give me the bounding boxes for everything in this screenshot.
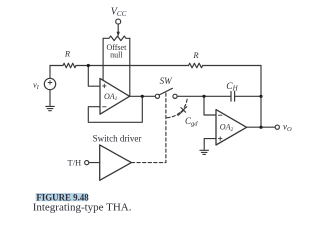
svg-text:Integrating-type THA.: Integrating-type THA. xyxy=(33,202,132,214)
offset null box right side xyxy=(129,38,131,65)
wire T/H to driver xyxy=(89,162,100,164)
capacitor Cgd cross stroke xyxy=(181,108,186,113)
label Switch driver xyxy=(93,133,142,143)
wire switch to CH xyxy=(177,95,231,97)
svg-text:R: R xyxy=(64,49,71,59)
ground under OA2 xyxy=(200,150,209,154)
capacitor Cgd plates xyxy=(178,107,187,116)
OA2 plus input marker xyxy=(218,137,222,141)
caption FIGURE 9.48 xyxy=(36,192,89,202)
wire OA1 output to switch xyxy=(130,95,156,97)
wire right rail down to output node xyxy=(260,66,262,128)
wire offset null left pin to OA1 xyxy=(102,66,104,81)
op-amp OA1 triangle xyxy=(100,78,130,114)
label SW xyxy=(160,76,174,86)
label OA1 xyxy=(104,92,118,102)
wire OA1 feedback loop xyxy=(88,96,142,122)
ground under source xyxy=(46,106,55,110)
label Offset null xyxy=(106,43,127,60)
VCC wiper stem xyxy=(117,24,119,32)
dashed control line driver to switch xyxy=(131,92,166,163)
label Cgd xyxy=(185,116,198,128)
label R2 xyxy=(192,50,199,60)
label vO xyxy=(283,122,292,134)
wire OA2 output xyxy=(247,126,276,128)
dashed arc Cgd upper segment xyxy=(184,99,187,108)
resistor R2 feedback xyxy=(189,63,203,68)
node input junction xyxy=(87,64,90,67)
wire CH to right rail xyxy=(235,95,261,97)
label vI xyxy=(33,80,40,92)
label VCC xyxy=(111,6,127,18)
offset null box left side xyxy=(102,38,104,65)
output terminal vO circle xyxy=(275,125,279,129)
OA1 minus input marker xyxy=(103,106,107,108)
VCC wiper arrowhead xyxy=(117,32,120,37)
node switch-CH junction xyxy=(202,95,205,98)
voltage source vI circle xyxy=(44,78,55,89)
wire offset null right pin to OA1 xyxy=(129,66,131,96)
node CH right rail junction xyxy=(259,95,262,98)
label OA2 xyxy=(220,123,234,133)
resistor R1 input xyxy=(63,63,76,68)
OA1 plus input marker xyxy=(103,84,107,88)
caption Integrating-type THA xyxy=(33,202,132,214)
svg-text:R: R xyxy=(192,50,199,60)
switch SW blade xyxy=(159,88,172,95)
node output junction xyxy=(259,126,262,129)
wire main top rail from source corner to right corner xyxy=(50,65,261,67)
svg-text:T/H: T/H xyxy=(68,157,82,167)
svg-text:SW: SW xyxy=(160,76,174,86)
wire noninverting input drop xyxy=(88,66,100,87)
svg-text:null: null xyxy=(110,51,123,60)
node OA1 output junction xyxy=(141,95,144,98)
dashed arc Cgd lower segment xyxy=(166,113,180,118)
VCC terminal circle xyxy=(116,19,121,24)
switch SW right contact xyxy=(173,94,177,98)
svg-text:Switch driver: Switch driver xyxy=(93,133,142,143)
T/H input terminal circle xyxy=(85,161,89,165)
label T/H xyxy=(68,157,82,167)
caption highlight xyxy=(36,193,88,201)
op-amp OA2 triangle xyxy=(216,110,247,145)
label CH xyxy=(226,82,238,93)
offset null potentiometer top edge xyxy=(103,36,130,41)
switch SW left contact xyxy=(155,94,159,98)
wire inverting input of OA2 xyxy=(204,96,216,115)
wire source to ground xyxy=(49,90,51,107)
label R1 xyxy=(64,49,71,59)
voltage source plus sign xyxy=(48,81,52,85)
switch driver buffer triangle xyxy=(100,145,132,180)
wire source vertical xyxy=(49,66,51,79)
OA2 minus input marker xyxy=(218,114,222,116)
wire OA2 noninverting input to ground xyxy=(204,139,216,150)
capacitor CH plates xyxy=(231,92,235,102)
